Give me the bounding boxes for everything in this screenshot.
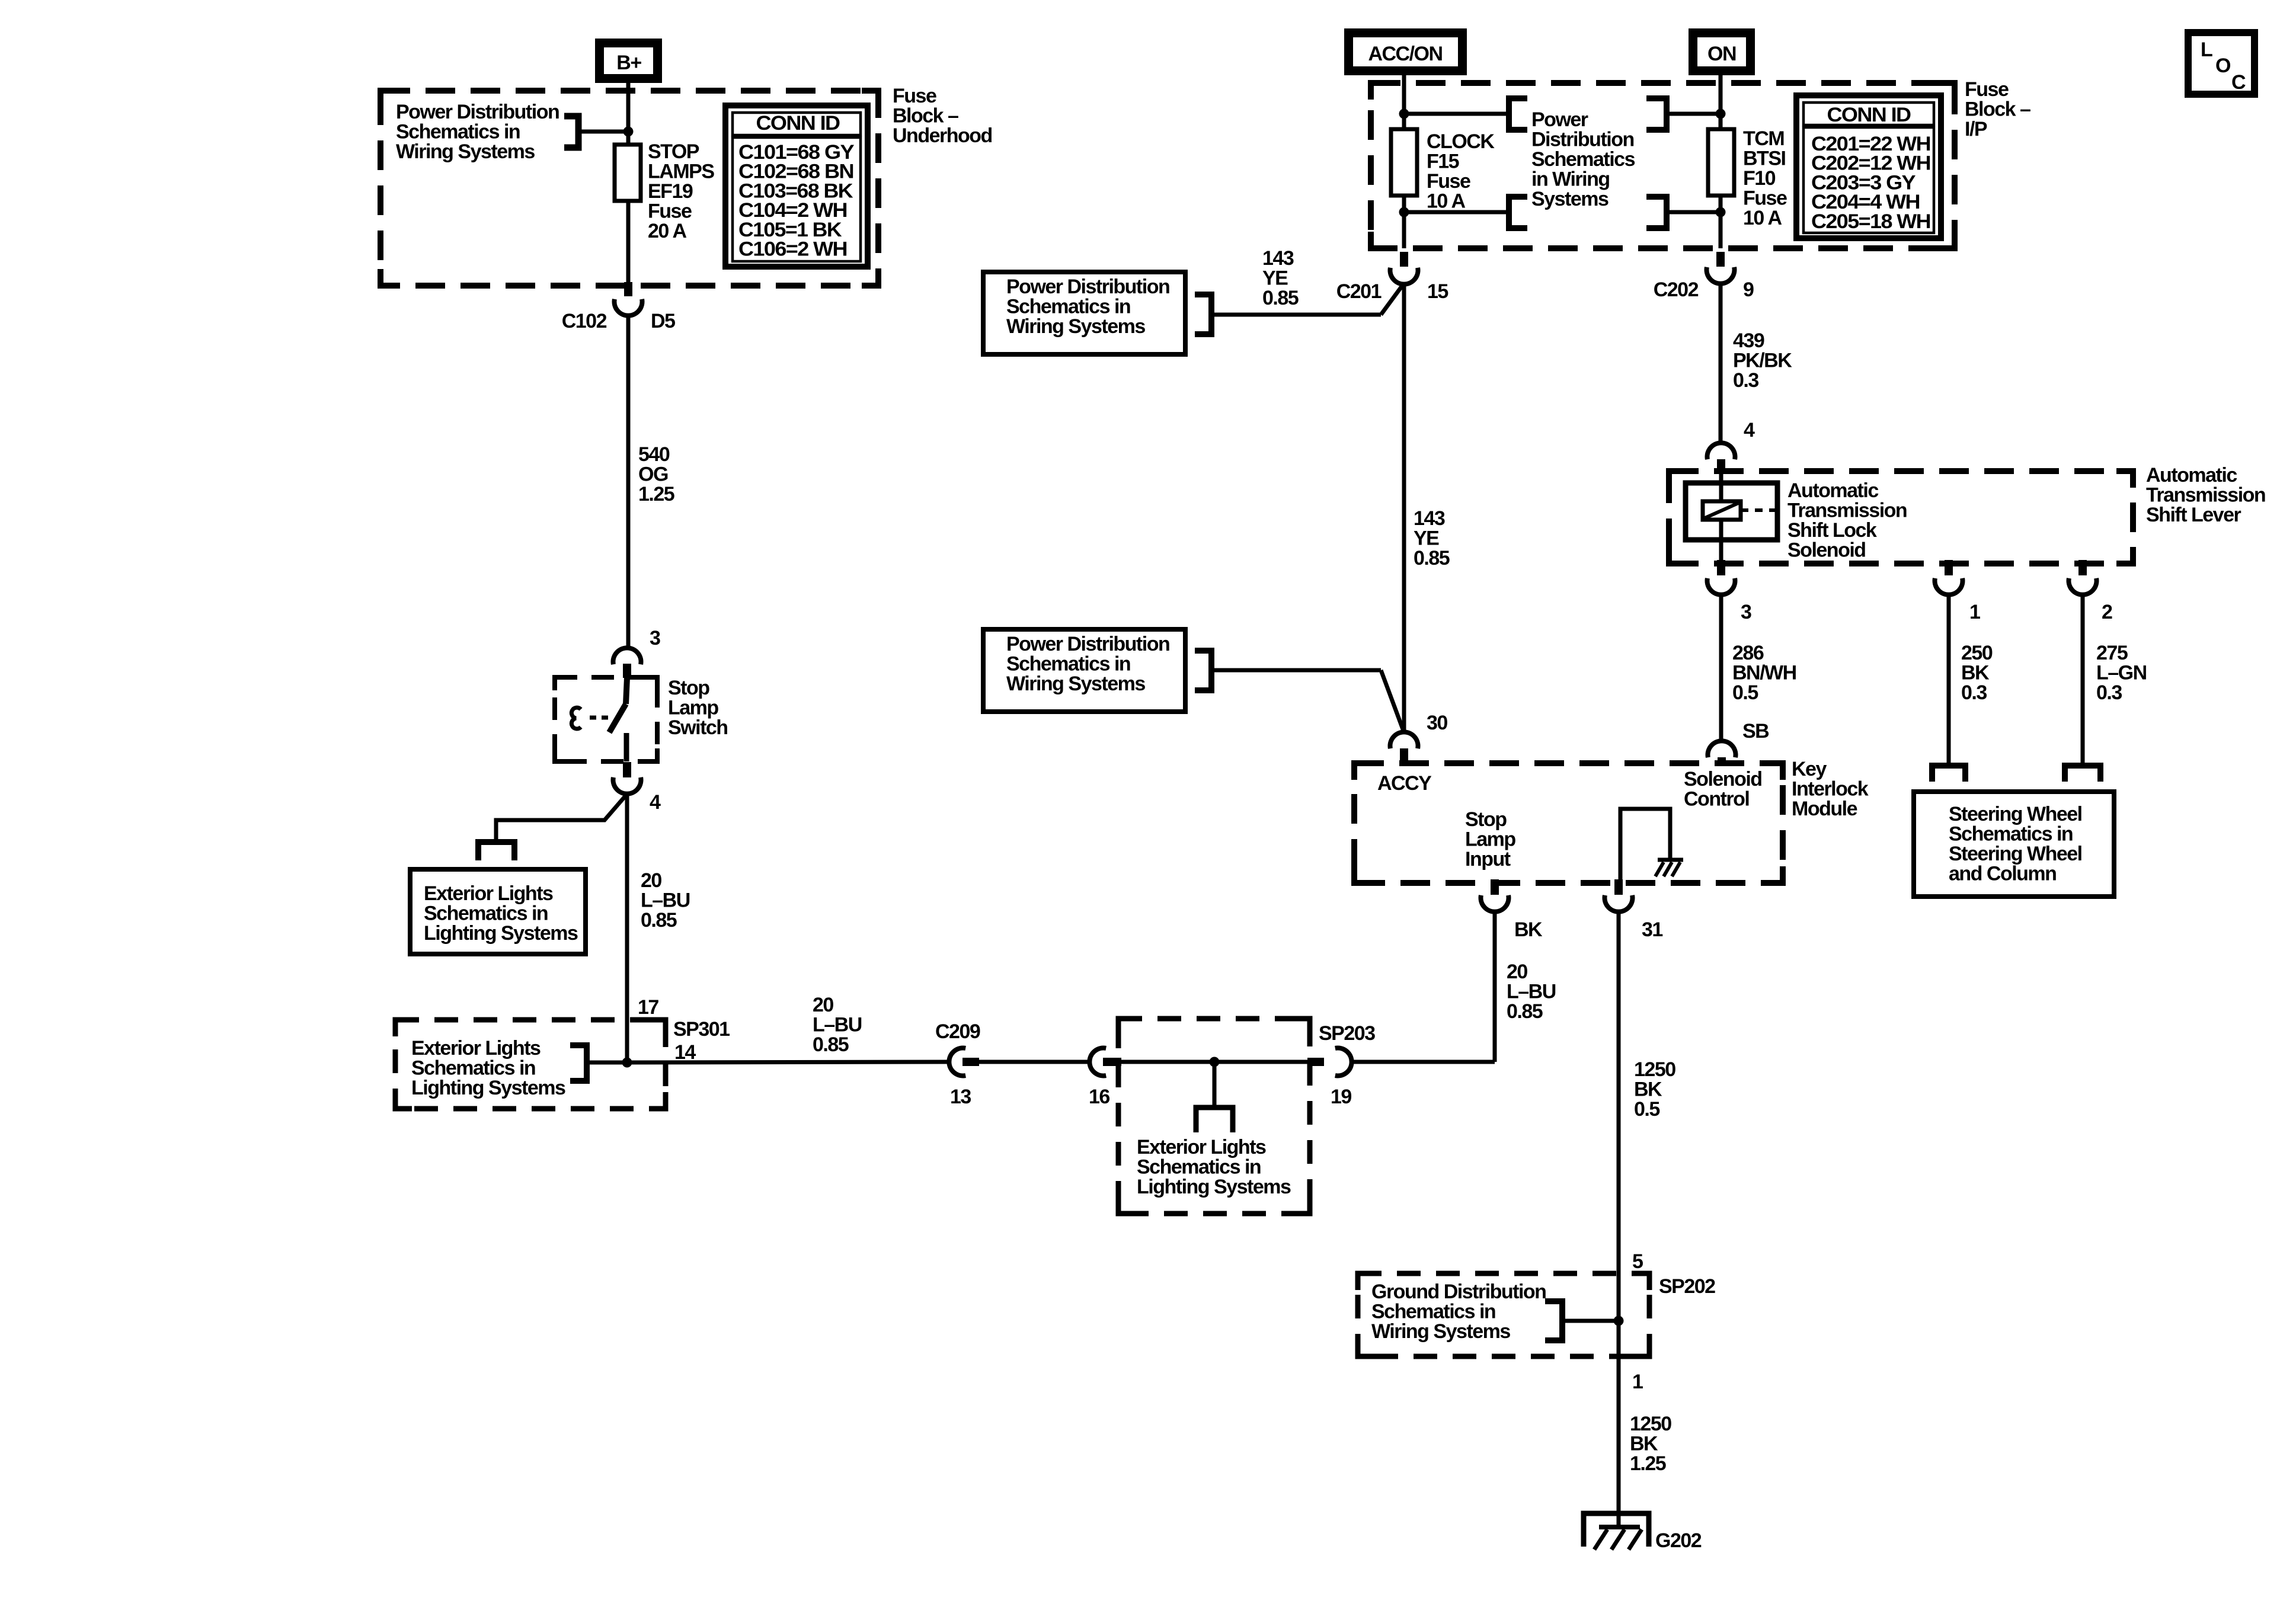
wire clock bottom to bracket	[1404, 210, 1509, 215]
connector C201 pin 15	[1336, 252, 1448, 303]
svg-text:0.5: 0.5	[1732, 681, 1758, 704]
svg-text:Automatic: Automatic	[1787, 479, 1878, 502]
svg-text:9: 9	[1743, 279, 1754, 301]
bracket above exterior lights box	[478, 842, 514, 860]
bracket tcm top	[1646, 98, 1667, 130]
wire bracket to B+ node	[578, 130, 628, 134]
svg-text:SP203: SP203	[1319, 1022, 1375, 1045]
svg-text:Fuse: Fuse	[893, 85, 936, 107]
CONN ID rows (I/P)	[1811, 133, 1930, 233]
svg-text:Fuse: Fuse	[1965, 78, 2009, 101]
svg-text:Switch: Switch	[668, 716, 728, 739]
svg-text:C202: C202	[1654, 279, 1699, 301]
svg-text:143: 143	[1262, 247, 1294, 270]
wire label 20 L-BU 0.85 (run to C209)	[813, 994, 862, 1056]
svg-text:ACCY: ACCY	[1377, 772, 1432, 795]
bracket tcm bottom	[1646, 197, 1667, 228]
svg-text:Stop: Stop	[1465, 808, 1507, 831]
solenoid element	[1703, 501, 1741, 520]
svg-text:540: 540	[638, 443, 670, 466]
svg-text:D5: D5	[651, 310, 675, 332]
svg-text:L–BU: L–BU	[813, 1014, 862, 1036]
ref text: Power Distribution (I/P)	[1531, 108, 1635, 210]
svg-text:ON: ON	[1707, 43, 1736, 65]
wire lower PD to 30	[1211, 668, 1381, 673]
svg-text:Steering Wheel: Steering Wheel	[1949, 843, 2082, 865]
svg-text:BK: BK	[1961, 662, 1990, 684]
label 5 (SP202 top pin)	[1632, 1250, 1643, 1273]
svg-text:BK: BK	[1514, 918, 1543, 941]
fuse block I/P dashed box	[1371, 83, 1955, 248]
svg-text:3: 3	[650, 627, 660, 649]
riser wire to stop lamp input	[1493, 911, 1497, 1062]
svg-text:C205=18 WH: C205=18 WH	[1811, 210, 1930, 233]
wire C201 down to 30	[1402, 284, 1406, 732]
svg-text:BK: BK	[1634, 1078, 1662, 1101]
junction node SP203	[1210, 1057, 1220, 1067]
svg-text:Wiring Systems: Wiring Systems	[1006, 315, 1145, 338]
connector 2 (shift lever)	[2069, 560, 2113, 623]
svg-text:1: 1	[1969, 601, 1980, 623]
svg-text:0.85: 0.85	[1414, 547, 1450, 569]
svg-text:BN/WH: BN/WH	[1732, 662, 1796, 684]
connector 1 (shift lever)	[1935, 560, 1981, 623]
wire bracket to tcm top	[1667, 112, 1721, 116]
svg-text:Ground Distribution: Ground Distribution	[1371, 1281, 1546, 1303]
connector 3 (solenoid bottom)	[1707, 560, 1752, 623]
label ACCY	[1377, 772, 1432, 795]
svg-text:EF19: EF19	[648, 180, 693, 203]
wire 19 to BK riser	[1351, 1060, 1495, 1064]
svg-text:CLOCK: CLOCK	[1427, 130, 1495, 153]
svg-text:31: 31	[1642, 918, 1662, 941]
label Automatic Transmission Shift Lock Solenoid	[1787, 479, 1907, 562]
interlock internal wire to ground	[1620, 809, 1670, 883]
svg-text:Steering Wheel: Steering Wheel	[1949, 803, 2082, 825]
off-page ref text: Ground Distribution	[1371, 1281, 1546, 1343]
wire through SP203	[1121, 1060, 1309, 1064]
fuse F10 TCM BTSI	[1708, 129, 1734, 196]
svg-text:Lamp: Lamp	[1465, 828, 1515, 851]
solenoid dashes to box	[1741, 508, 1776, 512]
svg-text:I/P: I/P	[1965, 118, 1987, 140]
off-page bracket (SP202)	[1545, 1301, 1562, 1340]
svg-text:ACC/ON: ACC/ON	[1368, 43, 1442, 65]
connector C209 pins 13/16	[935, 1020, 980, 1108]
junction node clock top	[1399, 109, 1409, 119]
svg-text:BTSI: BTSI	[1743, 148, 1786, 170]
svg-text:1250: 1250	[1634, 1058, 1675, 1081]
svg-text:Systems: Systems	[1531, 188, 1609, 210]
svg-text:10 A: 10 A	[1427, 190, 1466, 213]
switch fixed contact	[571, 708, 581, 729]
svg-text:LAMPS: LAMPS	[648, 161, 714, 183]
svg-text:Power Distribution: Power Distribution	[1006, 276, 1169, 298]
svg-text:Power Distribution: Power Distribution	[1006, 633, 1169, 655]
bracket (SP203 ref)	[1196, 1108, 1233, 1132]
key interlock module dashed box	[1354, 763, 1783, 883]
connector 16 (SP203 left)	[1089, 1048, 1121, 1109]
wire out of solenoid	[1719, 520, 1723, 564]
steering wheel ref box	[1914, 792, 2114, 897]
svg-text:B+: B+	[616, 52, 641, 74]
fuse EF19 label	[648, 140, 714, 242]
svg-text:5: 5	[1632, 1250, 1643, 1273]
bracket clock top	[1509, 98, 1527, 130]
connector 19 (SP203 right)	[1307, 1048, 1352, 1109]
svg-text:0.85: 0.85	[641, 909, 677, 932]
bracket above steering box (2)	[2065, 766, 2100, 782]
svg-text:0.3: 0.3	[1961, 681, 1987, 704]
svg-text:0.85: 0.85	[813, 1033, 849, 1056]
wire label 250 BK 0.3	[1961, 642, 1993, 704]
label Stop Lamp Switch	[668, 677, 728, 739]
svg-text:Underhood: Underhood	[893, 124, 992, 147]
svg-text:Stop: Stop	[668, 677, 709, 699]
svg-text:Wiring Systems: Wiring Systems	[1371, 1320, 1510, 1343]
svg-text:CONN ID: CONN ID	[1827, 104, 1911, 126]
fuse F15 CLOCK	[1391, 129, 1417, 196]
LOC legend box	[2188, 33, 2255, 94]
bracket clock bottom	[1509, 197, 1527, 228]
branch wire to exterior lights ref	[496, 794, 627, 842]
svg-text:TCM: TCM	[1743, 127, 1784, 150]
svg-text:C102: C102	[562, 310, 607, 332]
wire ACC/ON down	[1402, 75, 1406, 130]
svg-text:20: 20	[1507, 961, 1527, 983]
svg-text:4: 4	[650, 791, 661, 814]
svg-text:Interlock: Interlock	[1792, 778, 1869, 801]
svg-text:in Wiring: in Wiring	[1531, 168, 1610, 191]
svg-text:1.25: 1.25	[1630, 1452, 1666, 1475]
svg-text:and Column: and Column	[1949, 863, 2056, 885]
wire tcm fuse to C202	[1719, 196, 1723, 248]
svg-text:Key: Key	[1792, 758, 1827, 780]
svg-text:2: 2	[2102, 601, 2112, 623]
svg-text:3: 3	[1741, 601, 1751, 623]
svg-text:Lighting Systems: Lighting Systems	[1137, 1176, 1291, 1198]
wire label 1250 BK 1.25	[1630, 1413, 1671, 1475]
svg-text:Schematics in: Schematics in	[1949, 823, 2073, 846]
svg-text:Solenoid: Solenoid	[1684, 768, 1762, 790]
svg-text:Block –: Block –	[1965, 98, 2030, 121]
bracket above steering box (1)	[1932, 766, 1965, 782]
ground G202	[1584, 1513, 1702, 1552]
off-page ref text: Exterior Lights (SP301)	[411, 1037, 565, 1099]
svg-text:BK: BK	[1630, 1433, 1658, 1455]
svg-text:Exterior Lights: Exterior Lights	[411, 1037, 541, 1060]
wire label 20 L-BU 0.85 (to interlock)	[1507, 961, 1556, 1023]
wire label 143 YE 0.85 (upper)	[1262, 247, 1299, 309]
svg-text:0.85: 0.85	[1507, 1000, 1543, 1023]
label SP203	[1319, 1022, 1375, 1045]
svg-text:L: L	[2201, 39, 2212, 61]
svg-text:30: 30	[1427, 712, 1447, 734]
splice SP202 dashed box	[1358, 1273, 1649, 1356]
svg-text:Transmission: Transmission	[2146, 484, 2265, 507]
svg-text:Wiring Systems: Wiring Systems	[396, 140, 535, 163]
junction node clock bottom	[1399, 207, 1409, 217]
svg-text:C: C	[2231, 71, 2246, 94]
switch bottom lead	[624, 733, 629, 761]
label Fuse Block - Underhood	[893, 85, 992, 147]
svg-text:Fuse: Fuse	[648, 200, 692, 223]
wire bracket to SP202 node	[1562, 1319, 1619, 1323]
connector 4 (switch bottom)	[613, 762, 661, 814]
svg-text:YE: YE	[1414, 527, 1439, 550]
svg-text:1250: 1250	[1630, 1413, 1671, 1435]
connector 30 (ACCY pin)	[1390, 712, 1448, 764]
fuse EF19 STOP LAMPS 20A	[615, 145, 641, 201]
svg-text:L–BU: L–BU	[641, 889, 690, 912]
svg-text:Power: Power	[1531, 108, 1588, 131]
svg-text:Schematics in: Schematics in	[1006, 653, 1130, 676]
svg-text:20: 20	[641, 869, 661, 892]
wire bracket to SP301 node	[587, 1061, 627, 1065]
svg-text:C106=2 WH: C106=2 WH	[738, 238, 847, 261]
wire label 143 YE 0.85 (mid)	[1414, 507, 1450, 569]
wire SP202 to G202	[1617, 1356, 1621, 1528]
svg-text:Shift Lever: Shift Lever	[2146, 504, 2241, 526]
svg-text:Wiring Systems: Wiring Systems	[1006, 673, 1145, 695]
label 1 (SP202 bottom pin)	[1632, 1371, 1643, 1393]
svg-text:Schematics: Schematics	[1531, 148, 1635, 171]
wire fuse to C102	[626, 201, 631, 286]
svg-text:SB: SB	[1742, 720, 1769, 742]
wire bracket to tcm bottom	[1667, 210, 1721, 215]
label 14	[674, 1041, 696, 1064]
solenoid outer box	[1686, 483, 1777, 540]
svg-text:Lighting Systems: Lighting Systems	[424, 922, 578, 945]
label Solenoid Control	[1684, 768, 1762, 811]
splice SP203 dashed box	[1118, 1019, 1310, 1214]
terminal ACC/ON	[1344, 28, 1467, 75]
connector C202 pin 9	[1654, 252, 1754, 301]
stop lamp switch dashed box	[555, 677, 657, 761]
svg-text:C209: C209	[935, 1020, 980, 1043]
svg-text:Module: Module	[1792, 798, 1857, 820]
svg-text:Block –: Block –	[893, 105, 958, 127]
svg-text:Schematics in: Schematics in	[1006, 296, 1130, 318]
svg-text:250: 250	[1961, 642, 1993, 664]
switch top lead	[626, 678, 627, 704]
power distribution ref box (lower)	[983, 629, 1185, 712]
wire SP301 to C209	[627, 1062, 950, 1062]
bracket (lower PD box)	[1195, 651, 1211, 690]
fuse F15 label	[1427, 130, 1495, 213]
svg-text:F10: F10	[1743, 167, 1776, 190]
svg-text:Solenoid: Solenoid	[1787, 539, 1866, 562]
off-page ref text: Power Distribution (underhood)	[396, 101, 559, 163]
svg-text:Shift Lock: Shift Lock	[1787, 519, 1877, 542]
junction node SP301	[622, 1058, 632, 1068]
splice SP301 dashed box	[395, 1020, 666, 1109]
label Automatic Transmission Shift Lever	[2146, 464, 2265, 526]
svg-text:Input: Input	[1465, 848, 1511, 870]
svg-text:10 A: 10 A	[1743, 207, 1782, 229]
wire ON down	[1719, 75, 1723, 130]
wire clock fuse to C201	[1402, 196, 1406, 248]
stub down from SP203 node	[1213, 1062, 1217, 1108]
svg-text:4: 4	[1744, 419, 1755, 441]
wire C102 to stop lamp switch	[626, 315, 631, 648]
internal ground symbol	[1655, 860, 1683, 876]
svg-text:O: O	[2215, 55, 2231, 77]
CONN ID table (I/P)	[1796, 95, 1941, 238]
svg-text:Power Distribution: Power Distribution	[396, 101, 559, 123]
label SP202	[1659, 1275, 1715, 1298]
label Key Interlock Module	[1792, 758, 1869, 820]
connector SB (solenoid control pin)	[1708, 720, 1770, 766]
svg-text:Lamp: Lamp	[668, 697, 718, 719]
label Stop Lamp Input	[1465, 808, 1515, 870]
svg-text:OG: OG	[638, 463, 668, 486]
svg-text:Control: Control	[1684, 788, 1749, 811]
wire label 286 BN/WH 0.5	[1732, 642, 1796, 704]
label Fuse Block - I/P	[1965, 78, 2030, 140]
svg-text:16: 16	[1089, 1086, 1109, 1108]
CONN ID table (underhood)	[725, 105, 868, 267]
switch actuator dashes	[590, 716, 612, 720]
svg-text:SP301: SP301	[673, 1018, 730, 1041]
svg-text:439: 439	[1733, 329, 1764, 352]
wire 1 down	[1947, 594, 1951, 766]
svg-text:Lighting Systems: Lighting Systems	[411, 1077, 565, 1099]
svg-text:0.5: 0.5	[1634, 1098, 1659, 1121]
wire label 540 OG 1.25	[638, 443, 674, 505]
svg-text:L–BU: L–BU	[1507, 981, 1556, 1003]
exterior lights ref box (solid)	[410, 869, 586, 954]
svg-text:1: 1	[1632, 1371, 1643, 1393]
connector 4 (solenoid top)	[1707, 419, 1755, 474]
wire B+ down to fuse	[626, 83, 631, 146]
svg-text:G202: G202	[1655, 1529, 1702, 1552]
svg-text:YE: YE	[1262, 267, 1288, 290]
svg-text:0.3: 0.3	[1733, 369, 1758, 392]
diagonal wire into 30 cup	[1381, 670, 1404, 732]
svg-text:Transmission: Transmission	[1787, 500, 1907, 522]
svg-text:1.25: 1.25	[638, 483, 674, 505]
connector BK (stop lamp input)	[1481, 879, 1543, 941]
svg-text:F15: F15	[1427, 151, 1459, 173]
svg-text:275: 275	[2096, 642, 2128, 664]
svg-text:19: 19	[1331, 1086, 1351, 1108]
junction node on B+ wire	[623, 127, 634, 137]
terminal ON	[1689, 28, 1755, 75]
bracket (upper PD box)	[1195, 295, 1211, 334]
wire 31 down to SP202	[1617, 911, 1621, 1356]
wire 2 down	[2081, 594, 2085, 766]
wire label 439 PK/BK 0.3	[1733, 329, 1792, 392]
svg-text:15: 15	[1427, 280, 1448, 303]
diagonal wire into C201 cup	[1381, 283, 1404, 315]
wire into solenoid	[1719, 474, 1723, 503]
svg-text:L–GN: L–GN	[2096, 662, 2147, 684]
svg-text:Schematics in: Schematics in	[396, 121, 520, 143]
label 17 (SP301 pin)	[638, 996, 658, 1019]
junction node tcm top	[1716, 109, 1726, 119]
svg-text:286: 286	[1732, 642, 1764, 664]
svg-text:0.3: 0.3	[2096, 681, 2122, 704]
CONN ID rows (underhood)	[738, 141, 855, 261]
svg-text:Schematics in: Schematics in	[424, 902, 548, 925]
terminal B+	[595, 39, 662, 83]
svg-text:C201: C201	[1336, 280, 1382, 303]
junction node SP202	[1614, 1316, 1624, 1326]
label SP301	[673, 1018, 730, 1041]
svg-text:Exterior Lights: Exterior Lights	[1137, 1136, 1266, 1158]
AT shift lever dashed box	[1669, 471, 2133, 564]
wire PD to C201 riser	[1211, 313, 1381, 317]
off-page ref text: Exterior Lights (SP203)	[1137, 1136, 1291, 1198]
svg-text:STOP: STOP	[648, 140, 699, 163]
svg-text:Schematics in: Schematics in	[411, 1057, 535, 1080]
power distribution ref box (upper)	[983, 272, 1185, 354]
svg-text:Fuse: Fuse	[1743, 187, 1787, 210]
svg-text:SP202: SP202	[1659, 1275, 1715, 1298]
wire C202 down to 4	[1719, 283, 1723, 443]
connector 31 (module ground pin)	[1605, 879, 1663, 941]
off-page bracket (SP301)	[570, 1045, 587, 1081]
svg-text:13: 13	[950, 1086, 971, 1108]
svg-text:0.85: 0.85	[1262, 287, 1299, 309]
svg-text:Schematics in: Schematics in	[1137, 1156, 1261, 1179]
svg-text:17: 17	[638, 996, 658, 1019]
switch blade	[609, 704, 626, 732]
svg-text:Fuse: Fuse	[1427, 170, 1470, 193]
junction node tcm bottom	[1716, 207, 1726, 217]
svg-text:Exterior Lights: Exterior Lights	[424, 882, 553, 905]
wire label 275 L-GN 0.3	[2096, 642, 2147, 704]
fuse block underhood dashed box	[380, 91, 878, 286]
wire label 1250 BK 0.5	[1634, 1058, 1675, 1121]
svg-text:143: 143	[1414, 507, 1445, 530]
wire 3 to SB	[1719, 594, 1723, 742]
connector 3 (switch top)	[613, 627, 661, 678]
svg-text:20 A: 20 A	[648, 220, 687, 242]
svg-text:PK/BK: PK/BK	[1733, 350, 1792, 372]
wire C209 to SP203	[979, 1060, 1091, 1064]
svg-text:20: 20	[813, 994, 833, 1016]
svg-text:Distribution: Distribution	[1531, 129, 1634, 151]
off-page bracket (underhood PD)	[564, 116, 578, 148]
svg-text:Automatic: Automatic	[2146, 464, 2237, 486]
wire label 20 L-BU 0.85 (switch out)	[641, 869, 690, 932]
fuse F10 label	[1743, 127, 1787, 229]
wire clock top to bracket	[1404, 112, 1509, 116]
wire connector4 down to SP301	[625, 794, 629, 1062]
svg-text:Schematics in: Schematics in	[1371, 1301, 1495, 1323]
connector C102 pin D5	[562, 282, 675, 332]
svg-text:CONN ID: CONN ID	[756, 112, 840, 135]
